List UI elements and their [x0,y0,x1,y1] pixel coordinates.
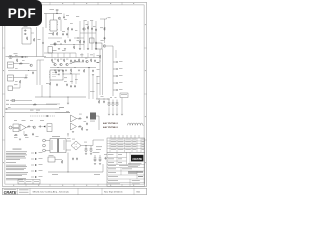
svg-text:ASY PUTNB O: ASY PUTNB O [103,126,118,129]
label assy line2 [103,126,118,129]
inline box REG1 [12,99,15,101]
left border zone tick 1 [2,47,5,49]
title cell t15 [108,179,118,182]
ground GND18 [85,154,87,155]
label BR1 [72,138,75,141]
capacitor C10 [24,30,27,32]
wire bus3 [6,108,61,110]
filter box FL1 [13,124,19,127]
label jk5 [15,81,18,84]
label band2 [62,49,66,52]
resistor R10 [19,63,23,65]
IC U2 box [50,70,63,80]
wire FB out [96,116,99,130]
label col B [84,19,87,22]
wire stub rail 6 [81,53,83,58]
resistor R7 [26,37,28,41]
top border zone tick 2 [49,2,51,5]
label assy line1 [103,122,118,125]
capacitor C27 [46,115,49,117]
diode D1 [44,126,46,128]
wire lc link2 [32,126,33,128]
footer cell2 text [19,190,29,193]
title block grid [107,152,145,186]
label bus5 b [36,109,40,112]
label ps1 [104,154,108,157]
drawing frame outer border [2,2,146,186]
label low2 [94,173,100,176]
capacitor C1 [63,16,65,19]
capacitor C44 [74,85,76,88]
bottom zone number 1 [13,184,14,187]
label bus5 a [30,109,34,112]
resistor R8 [33,38,35,42]
svg-text:CRATE: CRATE [132,157,142,161]
wire stub 104 [46,103,60,105]
legend symbol 4 [31,170,43,172]
resistor R15 [57,59,59,63]
IC U1 [50,20,57,31]
label C10 [24,26,28,29]
resistor R13 [49,82,51,86]
label bus3 [8,106,11,109]
wire Vplus riser [93,140,104,146]
bottom zone number 6 [133,184,134,187]
label mb1 [54,58,56,61]
label A4 [48,126,51,129]
label low1 [52,173,58,176]
footer bar outline [2,188,146,195]
wire input bus [6,56,47,58]
title block outline [107,152,145,186]
label bank a [110,96,112,99]
title cell t2 [118,153,122,156]
label Q2 [57,41,60,44]
driver box A2 [48,47,52,54]
footer divider 5 [133,188,135,195]
resistor R16 [63,59,65,63]
wire bank drop [121,98,123,114]
drawing frame inner border [5,5,144,184]
resistor R23 [27,126,31,128]
label tm3 [75,29,77,32]
label J3 [8,76,12,79]
wire stub rail 3 [63,53,65,58]
label band1 [52,49,57,52]
right border zone tick 1 [144,47,147,49]
op-amp U4 [71,115,77,122]
label cc mid [79,113,82,116]
label mb6 [97,61,99,64]
wire plug L [45,140,50,142]
capacitor C42 [71,28,73,31]
wire lc link4 [42,126,44,128]
electrolytic C25 [112,100,115,114]
T1 primary winding [51,140,54,150]
wire bank rail [96,98,110,100]
top border zone tick 3 [73,2,75,5]
footer title text [33,191,71,194]
wire Q1 drop [60,20,62,32]
capacitor C15 [55,71,57,74]
right zone letter 3 [144,116,147,117]
wire stub rail 1 [51,53,53,58]
block box A4 [47,124,52,132]
svg-text:B21: B21 [137,192,142,194]
wire bottom rail [35,96,86,98]
wire U1 top feed [53,14,55,21]
wire bus4 [5,112,70,114]
label jk1 [15,54,18,57]
wire coil tail [143,124,144,126]
wire input long [8,70,37,72]
node col join [78,38,79,39]
wire low tie [50,44,70,46]
top border zone tick 1 [25,2,27,5]
label T1 [52,135,60,138]
wire band rail3 [50,67,96,69]
node U2 out [62,73,65,76]
capacitor C23 [103,100,105,103]
label R8 [38,38,41,41]
T1 core lines [57,139,60,153]
wire y44 ext [70,44,84,46]
top zone number 3 [62,2,63,5]
notes paragraph 5 [6,178,26,180]
bottom zone number 3 [62,184,63,187]
node band j2 [74,66,77,69]
connector J4 pin 1 [113,61,123,63]
node low rail j [67,171,70,174]
electrolytic C36 [94,155,97,162]
ground GND20 [94,164,96,165]
wire B+ rail [44,13,62,15]
bottom border zone tick 1 [25,184,27,186]
transistor Q5 [54,63,57,66]
label col C [90,19,93,22]
wire plug N [45,150,50,152]
resistor R11 [24,77,28,79]
notes paragraph 1 [6,152,27,160]
capacitor C18 [70,59,72,62]
wire low rail [48,171,103,173]
capacitor C19 [74,59,76,62]
label tm1 [64,18,67,21]
resistor R2 [56,32,58,36]
wire C1 top [63,14,65,16]
capacitor C13 [21,56,24,58]
ground GND23 [58,74,60,75]
capacitor C9 [104,37,106,40]
electrolytic C26 [116,100,119,114]
label C32 [84,141,87,144]
legend symbol 5 [31,176,43,178]
label cc head [59,106,64,109]
svg-text:CRATE: CRATE [4,190,17,194]
left zone letter 4 [2,162,5,163]
wire lc drop [23,131,25,135]
top zone number 5 [110,2,111,5]
ground GND3 [79,49,81,50]
right border zone tick 3 [144,139,147,141]
capacitor C41 [62,69,64,72]
wire drop w2 [92,76,94,99]
node bank j3 [107,98,110,101]
label lc4 [40,119,44,122]
wire rail drop [67,97,69,103]
label Q7 [70,62,73,65]
wire column 4 [91,21,93,50]
capacitor C14 [32,71,34,74]
notes paragraph 2 [6,161,16,164]
footer divider 2 [29,188,31,195]
wire bus1 [10,100,32,102]
rev table outline [107,138,145,152]
footer divider 3 [77,188,79,195]
ground GND19 [90,154,92,155]
node input join [27,69,30,72]
node rail j1 [49,96,52,99]
tick VCC [106,18,108,19]
wire column 1 [79,21,81,50]
label jk3 [15,67,18,70]
wire block drop1 [41,85,43,97]
ground GND2 [64,49,66,50]
resistor R26 [78,118,82,120]
fuse F2 [67,134,69,137]
relay K1 box [96,43,102,49]
capacitor C28 [39,126,42,128]
label lc6 [25,136,29,139]
wire drop w3 [96,76,98,99]
transistor Q2 pwr [54,43,57,46]
top zone number 6 [133,2,134,5]
wire right col B [102,49,104,95]
title logo box [130,152,143,164]
label col A [76,15,79,18]
bottom border zone tick 4 [97,184,99,186]
wire low tie 2 [74,37,84,39]
top border zone tick 5 [121,2,123,5]
relay K1 armature [103,45,106,48]
label U1 [66,14,69,17]
wire band rail1 [44,52,76,54]
title cell t9 [119,164,128,167]
label pin c [97,69,100,72]
PDF badge overlay [0,0,42,26]
title cell t10 [108,168,116,171]
wire conn bracket [112,60,114,96]
transistor Q1 [58,17,61,20]
node B+ junction [57,13,58,14]
footer divider 1 [17,188,19,195]
ground GND15 [19,139,21,140]
resistor R20 [99,55,101,59]
label D bias [101,39,104,42]
title cell t12 [108,171,116,174]
wire relay out [106,46,113,60]
capacitor C12 [42,42,44,45]
left zone letter 2 [2,70,5,71]
top zone number 4 [86,2,87,5]
label J1 [14,53,18,56]
label U2 [64,77,67,80]
wire U4 out [77,118,79,120]
top zone number 1 [13,2,14,5]
resistor R19 [83,69,85,73]
wire C12 down [42,44,44,56]
capacitor C6 [95,28,97,31]
connector J4 pin 5 [113,89,123,91]
wire U2 out [63,73,80,75]
node bank j1 [98,98,101,101]
wire lc link3 [37,126,40,128]
wire stub rail 4 [69,53,71,58]
title cell t6 [118,161,122,164]
transistor Q3 [83,28,86,31]
ground GND16 [72,132,74,133]
wire J5 out [12,127,13,129]
label w group [90,91,95,94]
node y44 j [73,43,76,46]
label lc7 [36,136,39,139]
wire stub rail 2 [57,53,59,58]
top zone number 2 [38,2,39,5]
rev table grid [107,138,145,152]
wire drop pair B [39,60,41,85]
legend symbol 1 [31,152,43,154]
inline resistor R22 [33,104,37,106]
bottom border zone tick 5 [121,184,123,186]
switch SW1 box [8,86,13,91]
capacitor C30 [86,116,88,119]
wire reg out [55,159,62,161]
IC A3 box [90,38,95,43]
wire J3 out [14,77,25,79]
label band3 [80,54,84,57]
right zone letter 2 [144,70,147,71]
label band4 [90,54,93,57]
label VCC [108,17,111,20]
wire drop w1 [88,76,90,99]
footer sheet no [137,192,142,194]
wire vert x72 [71,74,73,84]
wire stub rail 8 [93,53,95,58]
resistor R17 [78,59,80,63]
label mb4 [72,62,74,65]
wire stub rail 5 [75,53,77,58]
ground GND12 [112,114,114,115]
wire drop pair A [36,60,38,85]
supply box PS [120,93,128,98]
bottom zone number 2 [38,184,39,187]
label lc5 [14,136,18,139]
label near table [96,147,102,150]
mains pin2 [43,144,46,147]
label C2 [62,30,65,33]
label bank b [115,96,117,99]
wire mid tie [48,37,62,39]
label R6 [100,27,103,30]
title cell t14 [138,175,143,178]
ground GND17 [86,130,88,131]
label R1 [49,32,53,35]
node out j [89,67,90,68]
wire mid drop [36,27,38,57]
fuse F1 [56,10,59,14]
electrolytic C37 [99,155,102,162]
resistor R18 [90,59,92,63]
label lc2 [22,119,26,122]
resistor R6 [104,27,106,31]
capacitor C11 [24,33,27,35]
electrolytic C32 [85,146,88,153]
transistor Q9 [33,126,36,129]
label Q5 [52,61,55,64]
capacitor C35 [76,157,78,160]
resistor R25 [24,134,28,136]
label pin e [97,83,100,86]
resistor R3 [64,40,66,44]
wire J1 out [12,56,28,58]
resistor R40 [70,69,72,73]
node BR1 plus [85,144,88,147]
capacitor C16 [56,83,58,86]
title cell t3 [108,158,114,161]
label R13 [46,82,49,85]
transistor Q6 [60,63,63,66]
connector J4 pin 4 [113,82,123,84]
bottom zone number 4 [86,184,87,187]
ground GND4 [87,49,89,50]
wire vert x76 [75,74,77,84]
right zone letter 1 [144,24,147,25]
wire sec top [66,140,71,142]
wire column 3 [87,21,89,50]
bottom zone number 5 [110,184,111,187]
pins U2 left [49,72,50,77]
label bus2 [6,103,9,106]
label blk3 [75,78,78,81]
capacitor C22 [92,69,94,72]
right border zone tick 2 [144,93,147,95]
pins U1 right [57,22,58,30]
transistor Q7 [66,63,69,66]
node bus4 j [36,111,39,114]
regulator VR2 box [48,157,55,162]
wire bottom drop [67,153,69,173]
connector J4 pin 3 [113,75,123,77]
label lc3 [30,119,33,122]
ground GND14 [121,114,123,115]
wire stub VCC [100,18,107,20]
footer rev text [104,191,123,194]
top border zone tick 4 [97,2,99,5]
capacitor C3 [66,33,68,36]
wire loop stub [31,32,34,34]
label jk4 [25,74,28,77]
wire right col A [99,49,101,95]
label VR2 [49,154,54,157]
mains pin3 [43,149,46,152]
notes paragraph 4 [6,172,28,176]
capacitor C4 [69,39,71,42]
resistor R21 [98,100,100,104]
ground GND11 [108,114,110,115]
wire R13 leads [49,80,51,97]
svg-text:ASY PUTNB O: ASY PUTNB O [103,122,118,125]
footer divider 4 [101,188,103,195]
